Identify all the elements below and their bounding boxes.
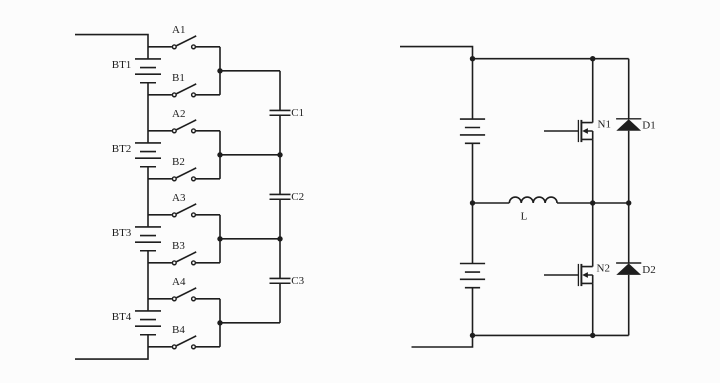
junction node 1: [217, 68, 222, 73]
wire: A4-B4 join: [219, 299, 221, 347]
switch A1: [148, 24, 220, 49]
wire: right bottom output: [412, 335, 473, 347]
switch A3: [148, 192, 220, 217]
wire: N2 drain lead: [592, 203, 594, 267]
wire: N2 source lead: [592, 283, 594, 335]
svg-text:A3: A3: [172, 192, 186, 204]
switch B4: [148, 324, 220, 349]
junction midrail battery: [470, 200, 475, 205]
transistor N1: [544, 119, 611, 143]
junction top rail N1: [590, 56, 595, 61]
wire: bottom battery lower lead: [472, 288, 474, 336]
wire: BT3- to BT4+ stack segment: [147, 251, 149, 311]
svg-text:BT2: BT2: [112, 143, 132, 155]
svg-text:L: L: [521, 210, 528, 222]
wire: right top input: [400, 47, 473, 59]
junction node 2: [217, 152, 222, 157]
wire: top battery upper lead: [472, 59, 474, 119]
svg-text:C2: C2: [291, 191, 304, 203]
switch B1: [148, 72, 220, 97]
wire: N1 source lead: [592, 139, 594, 203]
battery BT4: [112, 311, 161, 335]
wire: node 2 to ladder: [220, 154, 280, 156]
junction midrail N: [590, 200, 595, 205]
inductor L: [509, 197, 557, 222]
diode D1: [616, 119, 656, 132]
wire: D1 lower lead: [628, 131, 630, 203]
wire: BT2- to BT3+ stack segment: [147, 167, 149, 227]
svg-text:BT1: BT1: [112, 59, 132, 71]
wire: ladder segment 4: [279, 283, 281, 323]
svg-text:D1: D1: [642, 119, 655, 131]
capacitor C2: [270, 191, 305, 203]
wire: D2 lower lead: [628, 275, 630, 336]
svg-text:A1: A1: [172, 24, 185, 36]
svg-text:D2: D2: [642, 264, 655, 276]
svg-text:A4: A4: [172, 276, 186, 288]
junction node 4: [217, 320, 222, 325]
svg-text:N2: N2: [597, 263, 610, 275]
junction node 3: [217, 236, 222, 241]
wire: A3-B3 join: [219, 215, 221, 263]
svg-text:B3: B3: [172, 240, 185, 252]
junction midrail D: [626, 200, 631, 205]
svg-text:B1: B1: [172, 72, 185, 84]
battery right upper: [460, 119, 485, 143]
battery BT1: [112, 59, 161, 83]
diode D2: [616, 263, 656, 276]
wire: ladder segment 2: [279, 115, 281, 194]
junction node 3 ladder: [277, 236, 282, 241]
transistor N2: [544, 263, 610, 287]
svg-text:C3: C3: [291, 275, 304, 287]
wire: left bottom output rail: [75, 335, 148, 359]
switch A2: [148, 108, 220, 133]
battery BT2: [112, 143, 161, 167]
junction node 2 ladder: [277, 152, 282, 157]
wire: A2-B2 join: [219, 131, 221, 179]
svg-text:B2: B2: [172, 156, 185, 168]
wire: N1 drain lead: [592, 59, 594, 123]
svg-text:N1: N1: [598, 119, 611, 131]
wire: A1-B1 join: [219, 47, 221, 95]
svg-text:B4: B4: [172, 324, 185, 336]
switch A4: [148, 276, 220, 301]
switch B3: [148, 240, 220, 265]
wire: midrail right: [557, 202, 629, 204]
switch B2: [148, 156, 220, 181]
junction bottom rail battery: [470, 333, 475, 338]
wire: node 3 to ladder: [220, 238, 280, 240]
wire: ladder segment 3: [279, 199, 281, 278]
wire: bottom battery upper lead: [472, 203, 474, 264]
wire: right top rail: [473, 58, 629, 60]
wire: ladder segment 1: [279, 71, 281, 111]
wire: D2 upper lead: [628, 203, 630, 263]
capacitor C3: [270, 275, 305, 287]
wire: D1 upper lead: [628, 59, 630, 119]
wire: left top input rail: [75, 35, 148, 59]
battery BT3: [112, 227, 161, 251]
battery right lower: [460, 264, 485, 288]
svg-text:BT3: BT3: [112, 227, 132, 239]
svg-text:A2: A2: [172, 108, 185, 120]
svg-text:BT4: BT4: [112, 311, 132, 323]
capacitor C1: [270, 107, 305, 119]
junction top rail battery: [470, 56, 475, 61]
wire: node 4 to ladder: [220, 322, 280, 324]
wire: top battery lower lead: [472, 143, 474, 203]
svg-text:C1: C1: [291, 107, 304, 119]
wire: BT1- to BT2+ stack segment: [147, 83, 149, 143]
wire: node 1 to ladder: [220, 70, 280, 72]
wire: right bottom rail: [473, 334, 629, 336]
junction bottom rail N2: [590, 333, 595, 338]
wire: midrail left: [473, 202, 510, 204]
